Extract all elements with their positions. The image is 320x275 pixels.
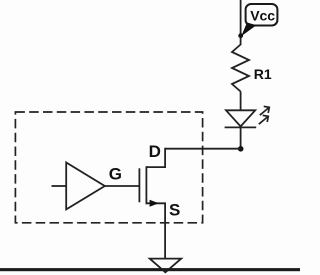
- wire drain to channel: [146, 166, 166, 168]
- svg-text:Vcc: Vcc: [250, 7, 275, 23]
- transistor Q1 channel bar: [145, 166, 147, 204]
- dashed enclosure box: [15, 112, 202, 223]
- node junction dot: [238, 146, 244, 152]
- transistor Q1 source lead: [146, 202, 166, 204]
- LED D1 anode triangle: [226, 110, 255, 126]
- bottom border line: [0, 268, 300, 271]
- junction dot at Vcc pointer: [238, 33, 243, 38]
- LED cathode bar: [225, 126, 257, 128]
- resistor R1 zigzag: [232, 45, 249, 92]
- ground symbol: [150, 259, 182, 273]
- transistor Q1 source arrow: [150, 200, 159, 207]
- LED light arrow lower: [259, 115, 269, 124]
- svg-text:R1: R1: [254, 66, 272, 82]
- svg-text:D: D: [149, 142, 161, 161]
- wire Vcc net vertical: [240, 0, 242, 45]
- svg-text:S: S: [169, 201, 180, 220]
- buffer U1 input stub: [52, 185, 67, 187]
- callout pointer to wire: [241, 23, 256, 37]
- buffer U1 triangle: [66, 163, 105, 210]
- wire buffer output to gate: [105, 185, 140, 187]
- transistor Q1 gate bar: [138, 168, 140, 202]
- svg-text:G: G: [109, 165, 122, 184]
- wire node to drain (horizontal): [165, 148, 241, 150]
- power flag Vcc callout box: [246, 4, 278, 26]
- wire source to ground: [164, 203, 166, 258]
- LED light arrow upper: [260, 106, 270, 115]
- wire resistor to LED: [240, 92, 242, 111]
- wire LED to node: [240, 127, 242, 148]
- wire drain vertical: [164, 148, 166, 167]
